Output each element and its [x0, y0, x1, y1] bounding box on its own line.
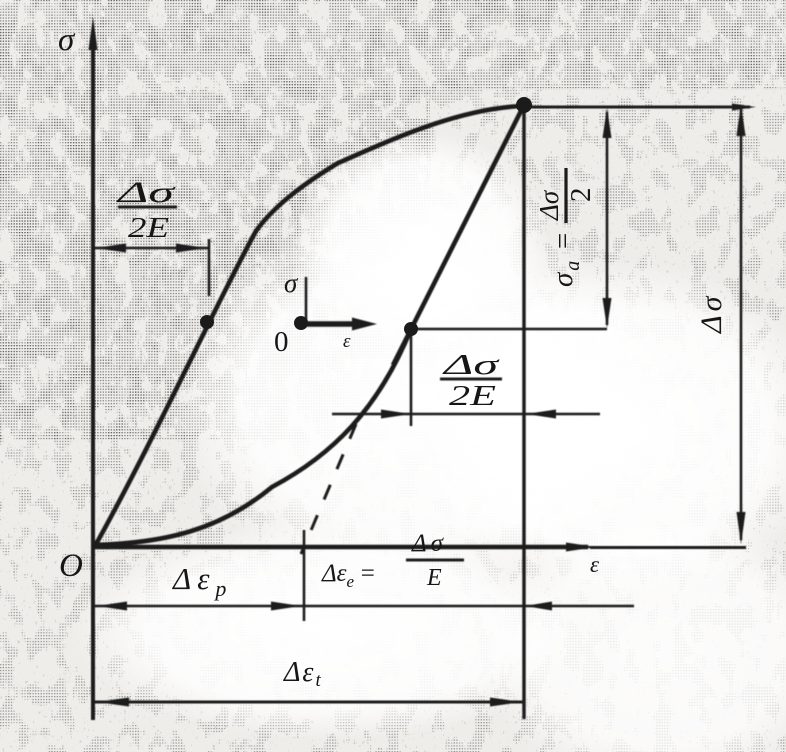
x-axis (epsilon axis): [91, 545, 588, 550]
svg-text:Δσ: Δσ: [695, 293, 728, 334]
svg-text:O: O: [59, 548, 83, 584]
vertical tick below mid-line dot (x=413): [410, 329, 413, 426]
inset origin dot: [294, 316, 308, 330]
y-axis (sigma axis): [91, 34, 95, 720]
lower branch of hysteresis loop: [95, 329, 411, 545]
fraction bar of upper delta-sigma/2E label: [118, 206, 177, 209]
svg-text:Δσ: Δσ: [116, 176, 176, 209]
vertical tick for upper delta-sigma/2E dimension (x=209): [208, 239, 211, 296]
svg-text:Δσ: Δσ: [442, 349, 501, 381]
dashed extension of unloading line to strain axis: [301, 424, 356, 554]
its left arrowhead: [96, 244, 126, 253]
loop tip dot (peak): [516, 97, 532, 113]
vertical reference line at loop tip (x=524): [522, 105, 525, 719]
x-axis arrowhead: [566, 543, 596, 552]
delta-sigma overall dimension line (x=741): [740, 108, 743, 540]
top line end arrowhead: [732, 104, 756, 111]
svg-text:Δσ: Δσ: [411, 530, 447, 557]
svg-text:σ: σ: [284, 268, 299, 298]
total strain dimension line y=702: [95, 701, 524, 704]
delta-sigma bottom arrowhead: [737, 512, 746, 544]
delta-sigma top arrowhead: [737, 104, 746, 136]
inset epsilon arrowhead: [352, 318, 377, 331]
svg-text:2E: 2E: [449, 381, 496, 412]
rotated sigma_a = delta-sigma/2 label: [534, 168, 597, 287]
coarse noise band upper-left: [0, 0, 420, 420]
x-axis extension under delta-sigma arrow: [590, 546, 746, 549]
delta-eps-p left arrowhead: [97, 602, 127, 611]
delta-eps-t right arrowhead: [490, 698, 522, 707]
dot on upper branch: [200, 315, 214, 329]
strain dimension line y=606 (delta-eps-p and delta-eps-e): [95, 605, 634, 608]
sigma_a dimension line (x=607): [606, 112, 609, 325]
inset origin: small sigma axis: [305, 277, 308, 321]
svg-text:ε: ε: [590, 552, 600, 577]
top horizontal line from peak: [524, 106, 750, 109]
clean white patches: [170, 210, 670, 590]
svg-text:σa =: σa =: [547, 229, 584, 287]
svg-text:2E: 2E: [128, 212, 169, 244]
delta-eps-p right arrowhead: [271, 602, 301, 611]
dot on unloading line: [404, 322, 418, 336]
fraction bar of lower delta-sigma/2E label: [440, 378, 502, 381]
y-axis arrowhead: [89, 17, 98, 50]
lower delta-sigma/2E dimension line (y=414): [332, 413, 600, 416]
sigma_a bottom arrowhead: [603, 298, 612, 328]
svg-text:σ: σ: [58, 22, 76, 58]
svg-text:Δσ: Δσ: [534, 189, 564, 221]
svg-text:E: E: [426, 565, 442, 591]
vertical tick separating plastic/elastic strain (x=304): [303, 530, 306, 621]
its right arrowhead: [176, 244, 206, 253]
sigma_a top arrowhead: [603, 108, 612, 138]
rotated delta-sigma label: [695, 293, 728, 334]
elastic unloading straight line from peak: [393, 105, 524, 365]
delta-eps-e arrowhead at x=524: [525, 602, 552, 611]
delta-eps-t left arrowhead: [97, 698, 129, 707]
fraction bar of delta-eps-e label: [406, 559, 464, 562]
upper delta-sigma/2E dimension line (y=248): [93, 247, 210, 250]
horizontal line at mid-dot level to sigma_a dimension: [411, 328, 607, 331]
svg-text:0: 0: [274, 326, 289, 358]
svg-text:ε: ε: [343, 331, 351, 352]
upper branch of hysteresis loop: [95, 106, 524, 546]
its right-pointing arrowhead (tip at x=411): [381, 410, 411, 419]
inset thick epsilon arrow: [303, 321, 360, 327]
denser raster texture over upper-left quadrant: [0, 0, 786, 440]
its left-pointing arrowhead (tip at x=526): [526, 410, 556, 419]
svg-text:2: 2: [565, 188, 597, 203]
